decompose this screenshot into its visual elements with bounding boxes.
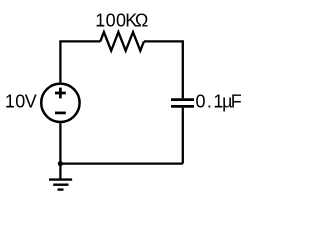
svg-text:10V: 10V [5,91,37,111]
voltage source plus sign [55,88,66,99]
svg-text:0.1µF: 0.1µF [195,91,241,111]
voltage source V1 circle [41,84,79,122]
wire source-bottom (source to ground stub) [59,123,61,179]
ground bar 2 [53,183,68,185]
ground bar 1 [49,178,72,180]
svg-text:100KΩ: 100KΩ [95,10,148,30]
voltage source minus sign [55,112,66,115]
wire top-left (left vertical + top horizontal to resistor) [60,41,100,82]
wire bottom (bottom horizontal) [60,162,182,164]
wire right-bottom (capacitor down to bottom wire) [182,108,184,164]
capacitor C1 top plate [171,98,194,101]
wire top-right (resistor to right vertical down to capacitor) [144,41,183,98]
capacitor C1 bottom plate [171,105,194,108]
resistor R1 zigzag [100,32,144,51]
ground bar 3 [58,188,64,190]
junction node [58,161,63,166]
